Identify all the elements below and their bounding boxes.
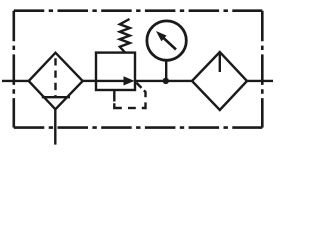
gauge: dial circle — [147, 21, 186, 60]
filter: drain line — [54, 109, 56, 144]
gauge: needle arrowhead — [156, 31, 167, 41]
filter: dashed element line — [54, 53, 56, 97]
filter: diamond body — [29, 53, 83, 110]
enclosure border: top edge (dash-dot) — [14, 9, 262, 12]
regulator: adjustment spring — [120, 19, 130, 53]
wire: outlet pipe — [247, 80, 273, 82]
wire: filter to regulator — [83, 80, 96, 82]
gauge: stem — [165, 59, 167, 81]
enclosure border: bottom edge (dash-dot) — [14, 126, 262, 129]
wire: inlet pipe — [2, 80, 29, 82]
regulator: body square — [96, 53, 135, 90]
wire: regulator to lubricator — [135, 80, 192, 82]
enclosure border: right edge (dash-dot) — [261, 11, 264, 128]
filter: water-trap chord — [42, 96, 70, 98]
gauge: needle shaft — [164, 38, 177, 50]
enclosure border: left edge (dash-dot) — [13, 11, 16, 128]
lubricator: drip tube — [219, 53, 221, 73]
regulator: feedback stub (solid) — [113, 90, 115, 102]
regulator: flow path line — [96, 80, 124, 82]
regulator: dashed pilot feedback line (explicit dashes) — [114, 103, 122, 108]
junction node (dot) — [163, 78, 169, 84]
regulator: flow arrowhead — [124, 76, 135, 85]
lubricator: diamond body — [192, 52, 247, 110]
